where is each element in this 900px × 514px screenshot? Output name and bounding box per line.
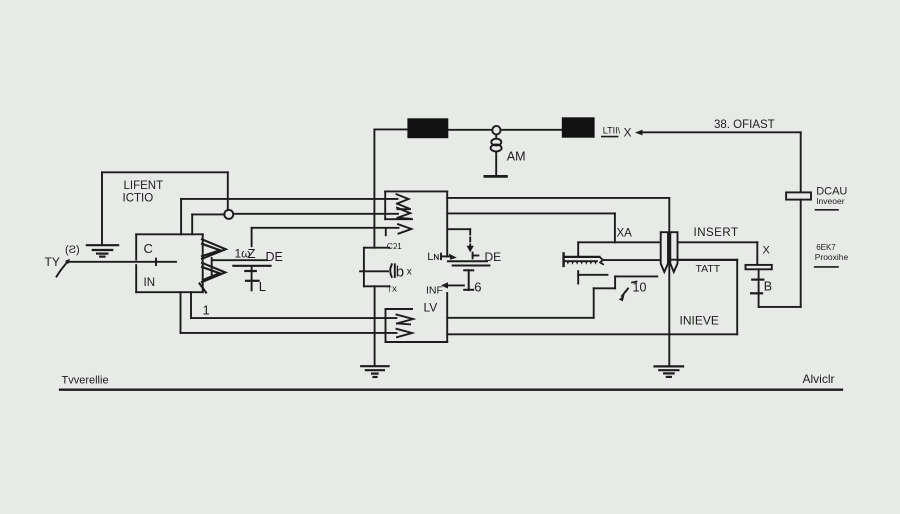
svg-text:B: B <box>764 280 772 294</box>
svg-text:INF: INF <box>426 284 443 296</box>
pin arrow A4 (bottom sub-box) <box>397 315 414 325</box>
wire W3: vertical stub down to Z label <box>251 228 253 246</box>
wire: block right mid to XA drop <box>447 212 615 214</box>
switch actuator at TY <box>57 259 71 277</box>
wire: resistor output to TATT box top <box>603 259 737 261</box>
wire: left arrow into I glyph <box>441 282 464 288</box>
wire: TY input to box <box>69 261 176 263</box>
svg-text:6: 6 <box>474 279 481 294</box>
annotation arrow near 10 <box>619 289 628 302</box>
inductor L2 (filled block) <box>562 117 595 137</box>
svg-text:Cʡ1: Cʡ1 <box>387 241 402 251</box>
resistor AM (loops under node) <box>491 135 502 176</box>
pin arrow A3 <box>386 224 412 235</box>
node: junction circle left <box>224 210 233 219</box>
capacitor B <box>751 269 763 307</box>
wire W3: rail to block arrow <box>252 227 399 229</box>
svg-text:(Ƨ): (Ƨ) <box>65 244 80 256</box>
node: junction circle on top rail <box>492 126 500 135</box>
op-amp chevron upper <box>202 239 226 258</box>
label 10 <box>632 281 646 295</box>
wire: stub into capacitor b <box>360 270 388 272</box>
svg-text:LV: LV <box>424 301 438 315</box>
capacitor L <box>245 267 258 291</box>
svg-text:Z: Z <box>248 246 256 261</box>
svg-text:10: 10 <box>633 281 647 295</box>
svg-text:IN: IN <box>144 277 156 289</box>
block U1 bottom sub-box <box>386 309 413 342</box>
wire: drop from INSERT rail onto resistor body <box>577 242 579 256</box>
wire: op-amp output <box>212 259 267 261</box>
wire W5: vertical below box <box>180 292 182 333</box>
wire: main right vertical down to ground <box>668 198 670 366</box>
op-amp chevron lower <box>200 263 226 293</box>
block U1 right edge lower <box>446 293 448 342</box>
svg-text:X: X <box>624 126 632 140</box>
svg-text:DE: DE <box>266 250 283 264</box>
ground: left input ground <box>87 245 118 256</box>
wire: block top right to main right vertical <box>447 197 669 199</box>
ground: under main right vertical <box>655 366 684 377</box>
capital I glyph (source) <box>464 270 473 290</box>
box LIFENT (open bottom) <box>102 172 228 244</box>
svg-text:b: b <box>396 263 404 280</box>
svg-text:XA: XA <box>617 228 633 240</box>
wire W4: vertical below box <box>190 292 192 318</box>
wire: block bottom right / TATT box bottom <box>447 333 737 335</box>
wire W4: rail to block bottom arrow <box>191 317 397 319</box>
box TATT (right edge and top) <box>669 260 737 335</box>
wire: INSERT horizontal rail <box>578 241 757 243</box>
wire: staircase step 1 (top) <box>615 275 657 277</box>
inductor L1 (filled block) <box>407 118 448 138</box>
capacitor DCAU (outlined plate) <box>786 192 811 199</box>
wire: top rail segment left <box>374 128 407 130</box>
svg-text:Inveoer: Inveoer <box>816 196 845 206</box>
box U2 (input block with C and IN) <box>136 234 203 292</box>
wire: stem from INSERT wire down to plate X <box>756 242 758 265</box>
svg-text:38. OFIAST: 38. OFIAST <box>714 119 775 131</box>
svg-text:LIFENT: LIFENT <box>124 180 164 192</box>
wire: right vertical lower <box>800 200 802 307</box>
transistor gate stub with right arrow <box>441 254 457 260</box>
wire: main center vertical lower segment to ground <box>374 286 376 366</box>
wire: block lower right to staircase <box>447 317 594 319</box>
pin arrow A1 (top) <box>397 194 411 209</box>
svg-text:TY: TY <box>45 255 60 269</box>
svg-text:1: 1 <box>203 302 210 317</box>
block U1 right edge upper <box>446 191 448 256</box>
ground: under resistor AM <box>485 175 507 178</box>
svg-text:INSERT: INSERT <box>694 227 739 239</box>
svg-text:Alviclr: Alviclr <box>803 372 835 386</box>
label LTIX with underline <box>602 126 632 140</box>
capacitor b plates <box>390 264 395 277</box>
wire W2: mid rail from node to block arrow <box>233 213 398 215</box>
wire: drop from block wire to INSERT rail <box>614 213 616 242</box>
vertical joint between chevrons <box>211 258 213 274</box>
svg-text:x: x <box>407 266 412 277</box>
pin arrow A5 <box>397 329 413 337</box>
svg-text:Tvverellie: Tvverellie <box>62 374 109 386</box>
svg-text:ICTIO: ICTIO <box>123 193 154 205</box>
svg-text:AM: AM <box>507 150 526 164</box>
wire: top rail between L1 and node <box>448 129 492 131</box>
stub: L-shape under resistor <box>578 271 607 283</box>
wire: top right rail with left arrowhead <box>635 130 801 136</box>
transistor gate bars <box>448 261 490 265</box>
wire W2: mid rail left of node <box>192 213 224 215</box>
connector J1 (two slot tubes) <box>661 232 678 272</box>
capacitor X (outlined plate) <box>746 265 772 269</box>
svg-text:TATT: TATT <box>696 263 721 275</box>
transistor drain wire (L with dashed drop and down arrow) <box>448 229 474 252</box>
block U1 top edge <box>385 190 447 192</box>
wire W1: top rail to block arrow <box>181 198 397 200</box>
bracket detour on main vertical (C1) <box>364 248 389 287</box>
svg-text:Prooxihe: Prooxihe <box>815 252 849 262</box>
tick inside box on input wire <box>155 259 157 266</box>
stub tick right of arrow <box>473 253 479 259</box>
svg-text:L: L <box>259 279 266 294</box>
bar under 1wZ <box>233 265 270 267</box>
label 1wZ <box>235 246 256 261</box>
svg-text:6EK7: 6EK7 <box>816 243 836 252</box>
wire: staircase step 2 <box>594 287 615 289</box>
ground: under main center vertical <box>361 366 388 377</box>
svg-text:X: X <box>763 245 771 257</box>
svg-text:C: C <box>144 241 153 256</box>
wire: staircase drop 2 <box>593 288 595 318</box>
svg-text:INIEVE: INIEVE <box>680 313 719 327</box>
wire: main center vertical from top rail down to bracket <box>373 129 375 247</box>
bottom rule <box>60 389 842 391</box>
wire: top rail between node and L2 <box>501 129 562 131</box>
wire W1: vertical from box top <box>180 199 182 234</box>
pin arrow A2 <box>397 208 411 219</box>
wire: bottom of right loop <box>759 306 801 308</box>
svg-text:Lɴ: Lɴ <box>427 251 439 263</box>
wire W2: vertical from box top to mid rail <box>191 214 193 234</box>
label DCAU Inveoer <box>816 185 848 209</box>
resistor R2 (hatched body, middle right) <box>564 253 604 266</box>
wire: staircase drop 1 <box>614 276 616 288</box>
svg-text:†x: †x <box>387 284 397 295</box>
label 6EK7 Prooxihe <box>815 243 849 267</box>
block U1 bottom edge <box>386 341 448 343</box>
wire: right vertical upper <box>800 132 802 192</box>
block U1 top sub-box <box>385 191 412 219</box>
svg-text:LTII\: LTII\ <box>603 126 621 136</box>
wire W5: rail to block bottom arrow <box>181 332 397 334</box>
